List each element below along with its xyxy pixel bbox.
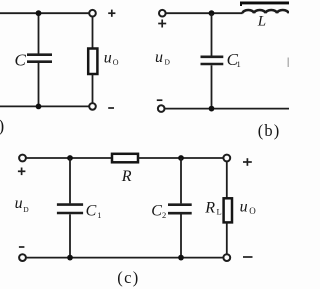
wire (b) capacitor lower lead: [211, 65, 213, 108]
svg-text:1: 1: [237, 59, 241, 69]
label - (a): [108, 107, 114, 109]
capacitor C2: [168, 205, 192, 214]
inductor L: [243, 10, 289, 13]
terminal (a) output +: [89, 10, 96, 17]
terminal (c) input -: [19, 254, 26, 261]
terminal (c) output -: [223, 254, 230, 261]
junction (c) node B top: [178, 155, 184, 161]
svg-text:R: R: [121, 168, 132, 185]
label uD (c): [15, 195, 30, 214]
label (c) caption: [117, 268, 139, 287]
crop artifact bar (b): [240, 2, 289, 7]
label uD (b): [155, 49, 171, 67]
svg-text:D: D: [23, 205, 29, 214]
junction (b) top node: [209, 10, 215, 16]
svg-text:u: u: [15, 195, 23, 212]
wire (c) top rail right: [138, 157, 224, 159]
svg-text:C: C: [15, 50, 27, 69]
label (a) caption remnant: [0, 116, 4, 136]
svg-text:(c): (c): [117, 268, 139, 287]
wire (c) C2 upper lead: [180, 158, 182, 203]
wire (c) C2 lower lead: [180, 214, 182, 257]
svg-text:C: C: [151, 202, 162, 219]
resistor R: [112, 154, 138, 163]
svg-text:2: 2: [162, 210, 166, 220]
label - (c) output: [243, 256, 253, 258]
label uO (c): [240, 198, 257, 216]
wire (a) top rail: [0, 12, 89, 14]
wire (c) C1 lower lead: [69, 214, 71, 257]
wire (b) top rail: [166, 12, 243, 14]
label RL: [204, 199, 221, 216]
terminal (a) output -: [89, 103, 96, 110]
svg-text:u: u: [104, 50, 112, 67]
label uO (a): [104, 50, 119, 67]
resistor load (a): [88, 49, 97, 75]
label - (c) input: [19, 246, 25, 248]
label C1 (b): [227, 50, 241, 69]
wire (b) bottom rail: [165, 108, 290, 110]
junction (a) top node: [36, 10, 42, 16]
label + (a): [108, 10, 115, 17]
wire (b) capacitor upper lead: [211, 13, 213, 55]
capacitor C1 (c): [57, 205, 83, 213]
svg-text:(b): (b): [258, 121, 281, 140]
svg-text:L: L: [217, 206, 222, 216]
junction (b) bottom node: [209, 106, 215, 112]
wire (a) bottom rail: [0, 105, 89, 107]
label + (c) output: [243, 158, 252, 166]
junction (a) bottom node: [36, 104, 42, 110]
terminal (b) input -: [158, 105, 165, 112]
crop artifact right edge: [287, 58, 289, 68]
svg-text:): ): [0, 116, 4, 136]
terminal (c) output +: [223, 155, 230, 162]
label + (c) input: [18, 168, 26, 176]
svg-text:L: L: [257, 14, 266, 30]
label C1 (c): [86, 202, 102, 220]
label - (b): [157, 99, 163, 101]
svg-text:R: R: [204, 199, 215, 216]
svg-text:O: O: [113, 58, 119, 67]
wire (a) load lower lead: [92, 74, 94, 103]
junction (c) node B bottom: [178, 255, 184, 261]
terminal (c) input +: [19, 155, 26, 162]
wire (c) load upper lead: [226, 161, 228, 198]
label C: [15, 50, 27, 69]
svg-text:O: O: [249, 206, 256, 216]
wire (c) C1 upper lead: [69, 158, 71, 203]
wire (c) load lower lead: [226, 222, 228, 254]
svg-text:D: D: [165, 58, 171, 67]
terminal (b) input +: [159, 10, 166, 17]
label (b) caption: [258, 121, 281, 140]
label + (b): [158, 20, 166, 28]
resistor RL: [224, 198, 232, 222]
wire (a) load upper lead: [92, 17, 94, 49]
wire (a) capacitor lower lead: [38, 63, 40, 106]
capacitor C1 (b): [201, 57, 224, 64]
label R: [121, 168, 132, 185]
capacitor C: [27, 55, 52, 62]
svg-text:C: C: [86, 202, 97, 219]
wire (c) top rail left: [26, 157, 112, 159]
label L: [257, 14, 266, 30]
wire (c) bottom rail: [26, 257, 224, 259]
label C2: [151, 202, 166, 220]
junction (c) node A top: [67, 155, 73, 161]
junction (c) node A bottom: [67, 255, 73, 261]
wire (a) capacitor upper lead: [38, 13, 40, 53]
svg-text:1: 1: [97, 210, 101, 220]
svg-text:u: u: [155, 49, 163, 66]
svg-text:u: u: [240, 198, 248, 215]
